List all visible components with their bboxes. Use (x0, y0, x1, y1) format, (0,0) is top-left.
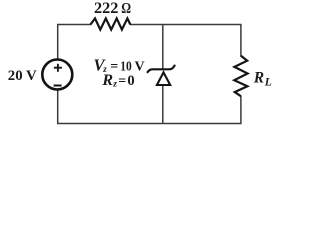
svg-text:L: L (264, 76, 272, 88)
svg-text:R: R (253, 70, 264, 87)
svg-text:V: V (135, 59, 145, 74)
resistor 222ohm zigzag (91, 18, 131, 29)
svg-text:10: 10 (120, 59, 131, 74)
wire middle branch lower (162, 85, 164, 124)
zener diode triangle (anode) (157, 72, 170, 85)
svg-text:Ω: Ω (122, 0, 132, 16)
svg-text:=: = (118, 74, 126, 89)
voltage source V1 circle (42, 60, 72, 90)
svg-text:z: z (112, 79, 117, 89)
svg-text:0: 0 (127, 73, 134, 89)
svg-text:20 V: 20 V (8, 68, 37, 84)
wire top-right: resistor to right corner (130, 25, 241, 57)
plus sign (54, 64, 62, 72)
resistor RL zigzag (234, 56, 247, 96)
wire bottom (58, 91, 241, 124)
svg-text:R: R (101, 72, 113, 89)
minus sign (54, 85, 62, 87)
wire top-left: corner to resistor (58, 25, 91, 59)
svg-text:222: 222 (94, 0, 118, 17)
wire middle branch upper (162, 25, 164, 69)
zener diode bar (cathode) (148, 66, 175, 73)
